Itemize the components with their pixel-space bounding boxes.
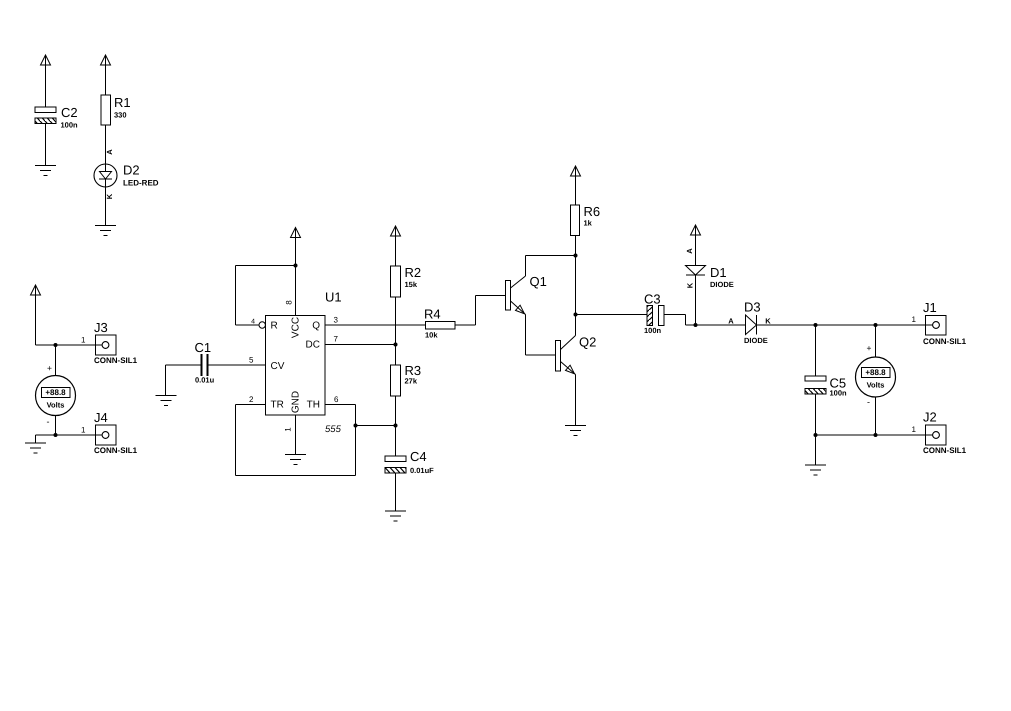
svg-text:A: A xyxy=(105,149,114,155)
svg-text:+88.8: +88.8 xyxy=(45,388,66,397)
svg-text:8: 8 xyxy=(285,300,294,305)
svg-text:1: 1 xyxy=(81,336,86,345)
svg-text:1: 1 xyxy=(912,315,917,324)
svg-text:3: 3 xyxy=(334,316,339,325)
svg-text:5: 5 xyxy=(249,356,254,365)
svg-text:D2: D2 xyxy=(123,163,140,178)
svg-text:K: K xyxy=(686,282,695,288)
svg-text:J2: J2 xyxy=(923,410,937,425)
svg-text:4: 4 xyxy=(251,319,255,326)
svg-text:D3: D3 xyxy=(744,300,761,315)
svg-text:Q: Q xyxy=(312,321,320,332)
svg-text:+: + xyxy=(47,363,52,373)
svg-text:C3: C3 xyxy=(644,292,661,307)
svg-text:U1: U1 xyxy=(325,290,342,305)
svg-text:Volts: Volts xyxy=(867,381,885,390)
svg-text:Q1: Q1 xyxy=(530,274,547,289)
svg-text:C2: C2 xyxy=(61,105,78,120)
svg-text:TR: TR xyxy=(271,400,284,411)
svg-text:1: 1 xyxy=(284,427,293,432)
svg-text:6: 6 xyxy=(334,395,339,404)
svg-text:330: 330 xyxy=(114,111,127,120)
svg-text:C4: C4 xyxy=(410,449,427,464)
svg-text:Q2: Q2 xyxy=(579,335,596,350)
svg-text:Volts: Volts xyxy=(47,401,65,410)
svg-text:A: A xyxy=(728,317,734,326)
svg-text:27k: 27k xyxy=(405,377,418,386)
svg-text:TH: TH xyxy=(307,400,320,411)
svg-text:CONN-SIL1: CONN-SIL1 xyxy=(923,446,967,455)
svg-text:0.01u: 0.01u xyxy=(195,376,215,385)
svg-text:K: K xyxy=(765,317,771,326)
svg-text:-: - xyxy=(47,417,50,427)
svg-text:C1: C1 xyxy=(195,340,212,355)
svg-text:LED-RED: LED-RED xyxy=(123,179,159,188)
svg-text:10k: 10k xyxy=(425,331,438,340)
svg-text:2: 2 xyxy=(249,395,254,404)
svg-text:CONN-SIL1: CONN-SIL1 xyxy=(923,337,967,346)
svg-text:R2: R2 xyxy=(405,265,422,280)
svg-text:1: 1 xyxy=(81,426,86,435)
svg-text:1k: 1k xyxy=(584,219,593,228)
svg-text:CONN-SIL1: CONN-SIL1 xyxy=(94,446,138,455)
svg-text:R1: R1 xyxy=(114,95,131,110)
svg-text:DIODE: DIODE xyxy=(710,280,734,289)
svg-text:CV: CV xyxy=(271,361,285,372)
svg-text:1: 1 xyxy=(912,425,917,434)
svg-text:J1: J1 xyxy=(923,300,937,315)
svg-text:CONN-SIL1: CONN-SIL1 xyxy=(94,356,138,365)
svg-text:+88.8: +88.8 xyxy=(865,368,886,377)
svg-text:555: 555 xyxy=(325,424,342,435)
svg-text:J4: J4 xyxy=(94,410,108,425)
svg-text:R4: R4 xyxy=(424,307,441,322)
svg-text:7: 7 xyxy=(334,335,339,344)
svg-text:0.01uF: 0.01uF xyxy=(410,466,434,475)
svg-text:A: A xyxy=(685,248,694,254)
svg-text:100n: 100n xyxy=(830,389,848,398)
svg-text:R: R xyxy=(271,321,278,332)
svg-text:15k: 15k xyxy=(405,280,418,289)
svg-text:+: + xyxy=(867,343,872,353)
svg-text:100n: 100n xyxy=(644,326,662,335)
svg-text:GND: GND xyxy=(291,391,302,413)
svg-text:D1: D1 xyxy=(710,265,727,280)
svg-text:K: K xyxy=(105,193,114,199)
svg-text:DIODE: DIODE xyxy=(744,336,768,345)
svg-text:100n: 100n xyxy=(61,121,79,130)
svg-text:DC: DC xyxy=(306,340,320,351)
svg-text:R6: R6 xyxy=(584,204,601,219)
svg-text:VCC: VCC xyxy=(291,317,302,338)
svg-text:J3: J3 xyxy=(94,320,108,335)
svg-text:-: - xyxy=(867,397,870,407)
